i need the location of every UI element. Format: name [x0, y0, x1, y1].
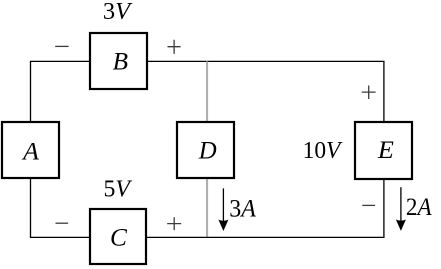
svg-text:A: A [21, 138, 40, 165]
svg-text:D: D [198, 137, 217, 164]
polarity plus right of B [168, 40, 181, 54]
polarity plus right of C [167, 217, 181, 230]
current arrow 2A [396, 187, 406, 231]
svg-text:B: B [113, 48, 128, 75]
component C [90, 209, 146, 264]
wire: B right across to corner and down to E top [148, 61, 384, 122]
wire: A top to B left [31, 61, 90, 122]
component B [90, 33, 147, 89]
polarity plus above E [362, 86, 376, 100]
polarity minus left of B [55, 45, 68, 47]
svg-text:C: C [110, 225, 127, 252]
polarity minus left of E bottom wire [362, 204, 375, 206]
wire: C right across to corner and up to E bottom [147, 179, 384, 238]
svg-text:E: E [377, 137, 394, 164]
svg-text:3A: 3A [229, 196, 256, 223]
component D [177, 122, 234, 178]
component E [355, 122, 412, 179]
wire: D bottom down to bottom rail [206, 179, 208, 238]
component A [2, 122, 59, 178]
wire: branch node down to D top [206, 61, 208, 121]
wire: A bottom to C left [31, 179, 90, 238]
svg-text:3V: 3V [103, 0, 133, 25]
svg-text:2A: 2A [406, 194, 432, 221]
svg-text:10V: 10V [303, 138, 343, 164]
current arrow 3A [218, 188, 228, 231]
polarity minus left of C [56, 222, 69, 224]
svg-text:5V: 5V [104, 177, 133, 203]
